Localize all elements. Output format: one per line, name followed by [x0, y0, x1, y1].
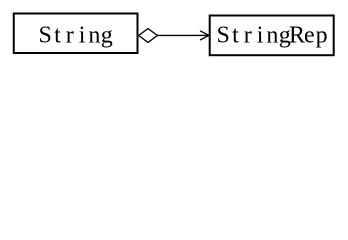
- svg-text:r: r: [244, 23, 252, 49]
- class box String: [14, 14, 138, 54]
- svg-text:r: r: [66, 23, 74, 49]
- arrowhead: [200, 31, 209, 40]
- svg-text:i: i: [79, 23, 86, 49]
- svg-text:g: g: [101, 23, 113, 49]
- label StringRep: [217, 23, 328, 49]
- label String: [39, 23, 113, 49]
- wire connector: [156, 34, 209, 36]
- svg-text:n: n: [88, 23, 100, 49]
- svg-text:R: R: [289, 23, 305, 49]
- svg-text:p: p: [316, 23, 328, 49]
- svg-text:e: e: [304, 23, 315, 49]
- aggregation diamond: [139, 29, 158, 43]
- svg-text:i: i: [257, 23, 264, 49]
- class box StringRep: [210, 16, 334, 56]
- svg-text:S: S: [217, 23, 230, 49]
- svg-text:S: S: [39, 23, 52, 49]
- svg-text:t: t: [54, 23, 61, 49]
- svg-text:n: n: [266, 23, 278, 49]
- svg-text:t: t: [232, 23, 239, 49]
